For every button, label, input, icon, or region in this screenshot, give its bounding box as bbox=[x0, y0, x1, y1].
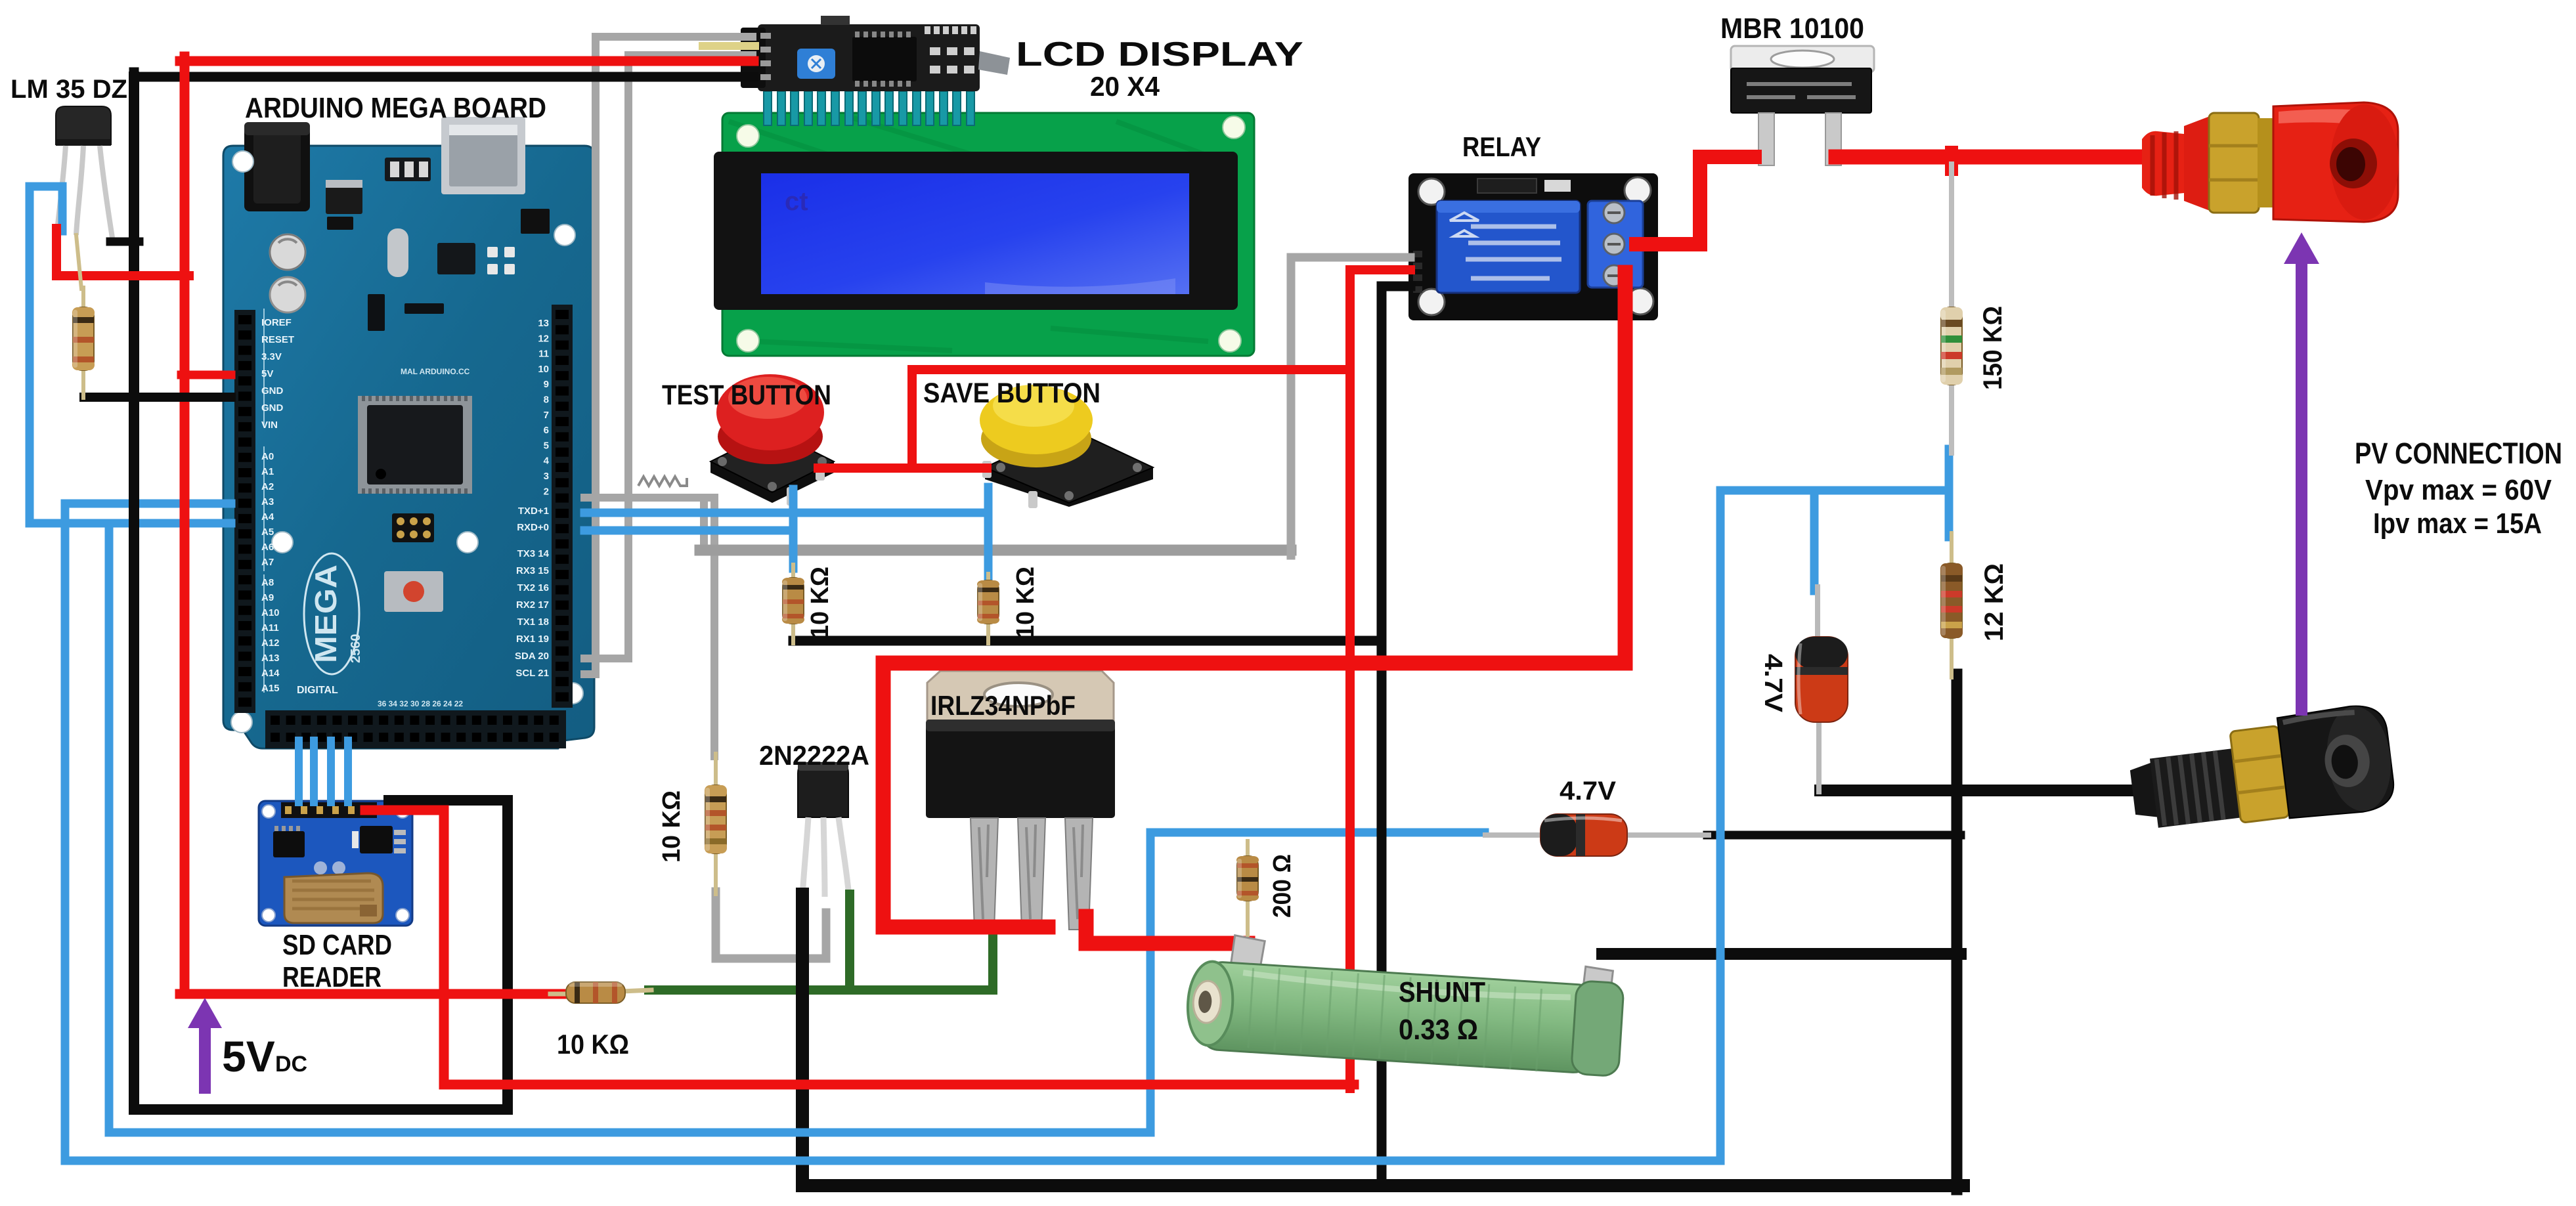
svg-text:150 KΩ: 150 KΩ bbox=[1978, 306, 2007, 390]
svg-text:TX3 14: TX3 14 bbox=[517, 548, 550, 559]
svg-text:11: 11 bbox=[538, 349, 549, 360]
wire: black from shunt to rail bbox=[1602, 948, 1961, 960]
wire: black pulldown bus under buttons bbox=[793, 636, 1382, 646]
svg-text:2N2222A: 2N2222A bbox=[759, 740, 869, 771]
svg-text:10: 10 bbox=[538, 364, 549, 375]
svg-text:10 KΩ: 10 KΩ bbox=[658, 790, 686, 863]
wire: red riser to relay VCC pin bbox=[1350, 270, 1410, 1088]
svg-text:4.7V: 4.7V bbox=[1759, 654, 1787, 713]
svg-text:TEST BUTTON: TEST BUTTON bbox=[662, 379, 831, 411]
svg-text:A11: A11 bbox=[261, 622, 279, 634]
svg-text:0.33 Ω: 0.33 Ω bbox=[1399, 1014, 1478, 1046]
artifact squiggle bbox=[638, 477, 687, 486]
svg-text:4: 4 bbox=[544, 456, 550, 467]
resistor lead 10K base bbox=[714, 754, 718, 789]
wire: blue MOSFET source sense riser bbox=[1150, 832, 1485, 1132]
wire: black left rail / SD ground loop bbox=[134, 77, 508, 1109]
svg-text:MAL ARDUINO.CC: MAL ARDUINO.CC bbox=[401, 367, 470, 376]
svg-text:TXD+1: TXD+1 bbox=[518, 506, 549, 517]
svg-text:5: 5 bbox=[544, 440, 549, 451]
svg-text:ARDUINO MEGA BOARD: ARDUINO MEGA BOARD bbox=[245, 92, 546, 124]
wire: red LM35 supply stub bbox=[56, 228, 189, 276]
wire: black from 4.7V diode to rail bbox=[1707, 831, 1961, 840]
wire: red relay COM to MBR anode bbox=[1636, 157, 1755, 244]
svg-text:9: 9 bbox=[544, 379, 549, 390]
wire: blue bottom bus 2 bbox=[65, 1157, 1720, 1165]
wire: grey 2N2222 base link bbox=[716, 892, 826, 958]
wire: grey branch down to relay IN bus bbox=[700, 502, 708, 550]
svg-text:A1: A1 bbox=[261, 466, 274, 477]
wire: red MBR cathode to PV positive jack bbox=[1836, 150, 2158, 165]
wire: blue LM35 output loop bbox=[30, 186, 231, 523]
purple arrow 5VDC supply bbox=[188, 998, 222, 1094]
resistor lead 10K gate bbox=[550, 992, 591, 997]
wire: grey SCL from Arduino pin 21 to LCD backpack bbox=[584, 37, 753, 674]
wire: red MOSFET source to shunt bbox=[1086, 916, 1248, 943]
svg-text:ct: ct bbox=[785, 187, 808, 216]
svg-text:READER: READER bbox=[282, 961, 382, 993]
svg-text:13: 13 bbox=[538, 318, 549, 329]
zener diode 4.7V (vertical) bbox=[1795, 584, 1848, 794]
wire: red top bus to LCD backpack VCC bbox=[180, 56, 754, 66]
wire: black LM35 ground stub bbox=[110, 238, 139, 246]
temperature sensor LM35 DZ bbox=[56, 106, 112, 238]
svg-text:12 KΩ: 12 KΩ bbox=[1980, 563, 2009, 641]
svg-text:SCL 21: SCL 21 bbox=[515, 668, 549, 679]
svg-text:MBR 10100: MBR 10100 bbox=[1720, 12, 1864, 45]
svg-text:SAVE BUTTON: SAVE BUTTON bbox=[923, 377, 1101, 409]
wire: red relay NO contact to MOSFET drain bbox=[883, 272, 1625, 927]
svg-text:LM 35 DZ: LM 35 DZ bbox=[11, 75, 127, 104]
svg-text:4.7V: 4.7V bbox=[1560, 777, 1616, 806]
wire: red button feed bbox=[818, 463, 987, 473]
svg-text:GND: GND bbox=[261, 385, 284, 397]
resistor R 10K (gate series, horizontal) bbox=[566, 982, 625, 1003]
PV positive banana jack (red) bbox=[2142, 102, 2399, 222]
wire: red 5V vertical rail bbox=[180, 56, 190, 994]
svg-text:RELAY: RELAY bbox=[1462, 131, 1541, 162]
wire: black GND stub overlay bbox=[84, 393, 231, 402]
wire: blue bottom bus 1 bbox=[109, 1129, 1150, 1137]
svg-text:A14: A14 bbox=[261, 668, 280, 679]
svg-text:SD CARD: SD CARD bbox=[282, 929, 392, 961]
wire: blue bus overlays bbox=[109, 1129, 1150, 1137]
svg-text:TX1 18: TX1 18 bbox=[517, 616, 549, 628]
wire: black 12K node rail bbox=[1952, 674, 1963, 1190]
svg-text:RESET: RESET bbox=[261, 334, 294, 345]
wire: green gate drive from 10K to MOSFET gate bbox=[649, 927, 993, 990]
svg-text:VIN: VIN bbox=[261, 420, 278, 431]
svg-text:Ipv max = 15A: Ipv max = 15A bbox=[2373, 507, 2542, 540]
resistor R 200 ohm bbox=[1237, 856, 1258, 901]
LCD I2C backpack module bbox=[741, 16, 1010, 91]
svg-text:A15: A15 bbox=[261, 683, 280, 694]
svg-text:A9: A9 bbox=[261, 592, 274, 603]
wire: black LM35 divider to Arduino GND bbox=[84, 393, 231, 402]
svg-text:Vpv max = 60V: Vpv max = 60V bbox=[2365, 474, 2552, 506]
resistor lead LM35 divider bbox=[76, 235, 81, 289]
svg-text:20 X4: 20 X4 bbox=[1090, 71, 1160, 102]
TEST push button bbox=[710, 374, 834, 506]
svg-text:A7: A7 bbox=[261, 557, 274, 568]
SAVE push button bbox=[980, 385, 1153, 508]
wire: red button riser and run to relay rail bbox=[912, 370, 1350, 468]
resistor lead 10K test bbox=[791, 565, 795, 582]
svg-text:GND: GND bbox=[261, 402, 284, 414]
wire: red rail to gate pulldown 10K bbox=[180, 989, 567, 999]
wire: blue 150K-12K junction segment bbox=[1945, 449, 1954, 537]
zener diode 4.7V (horizontal) bbox=[1483, 814, 1711, 856]
svg-text:DC: DC bbox=[275, 1052, 307, 1077]
svg-text:MEGA: MEGA bbox=[309, 565, 343, 663]
resistor R 10K (test button pulldown) bbox=[783, 578, 804, 624]
wire: blue branch to 4.7V zener bbox=[1810, 490, 1819, 591]
svg-text:RX3 15: RX3 15 bbox=[516, 565, 549, 576]
svg-text:IRLZ34NPbF: IRLZ34NPbF bbox=[930, 690, 1076, 721]
svg-text:10 KΩ: 10 KΩ bbox=[806, 567, 834, 639]
resistor R 10K (save button pulldown) bbox=[978, 580, 999, 624]
resistor lead 200 ohm bbox=[1246, 841, 1250, 860]
svg-text:PV CONNECTION: PV CONNECTION bbox=[2355, 437, 2562, 470]
wire: blue test button leg bbox=[789, 489, 798, 569]
svg-text:LCD DISPLAY: LCD DISPLAY bbox=[1016, 35, 1303, 74]
wire: green 2N2222 collector leg drop bbox=[845, 894, 854, 988]
svg-text:5V: 5V bbox=[261, 368, 273, 379]
wire: blue Arduino TX pin to buttons bbox=[584, 509, 988, 517]
wire: red stub into Arduino 5V pin bbox=[181, 371, 231, 379]
relay module bbox=[1408, 173, 1658, 320]
wire: blue left drop to bottom bus 1 bbox=[105, 523, 114, 1132]
wire: black relay GND drop bbox=[1382, 286, 1410, 1186]
svg-text:10 KΩ: 10 KΩ bbox=[557, 1029, 629, 1060]
wire: black top bus to LCD backpack GND bbox=[134, 72, 754, 77]
resistor lead 12K bbox=[1950, 533, 1954, 567]
svg-text:2: 2 bbox=[544, 486, 549, 497]
resistor R 12K bbox=[1941, 563, 1962, 638]
svg-text:12: 12 bbox=[538, 333, 549, 344]
Schottky diode MBR 10100 (TO-220) bbox=[1731, 46, 1874, 165]
svg-text:SHUNT: SHUNT bbox=[1399, 976, 1485, 1008]
LCD 20x4 display module bbox=[714, 91, 1254, 356]
svg-text:IOREF: IOREF bbox=[261, 317, 292, 328]
svg-text:A10: A10 bbox=[261, 607, 280, 618]
svg-text:SDA 20: SDA 20 bbox=[515, 651, 549, 662]
wire: khaki jumper into backpack bbox=[703, 42, 755, 50]
PV negative banana jack (black) bbox=[2126, 702, 2397, 840]
wire: red branch to 150K divider bbox=[1945, 152, 1958, 169]
svg-text:A13: A13 bbox=[261, 653, 280, 664]
svg-text:3: 3 bbox=[544, 471, 549, 482]
wire: grey signal Arduino to 2N2222 base resistor bbox=[584, 498, 714, 756]
svg-text:A6: A6 bbox=[261, 542, 274, 553]
svg-text:RX2 17: RX2 17 bbox=[516, 599, 549, 611]
wire: black main ground bus bbox=[802, 894, 1963, 1186]
svg-text:A3: A3 bbox=[261, 496, 274, 507]
svg-text:3.3V: 3.3V bbox=[261, 351, 282, 362]
wire: blue riser to 150K/12K node bbox=[1720, 490, 1949, 1161]
resistor R 150K bbox=[1941, 307, 1962, 385]
svg-text:DIGITAL: DIGITAL bbox=[297, 685, 338, 696]
wire: blue SD card data lines bbox=[295, 741, 303, 802]
wire: blue Arduino A-pin to left drop bbox=[65, 504, 231, 1161]
SD card reader module bbox=[259, 801, 412, 926]
svg-text:200 Ω: 200 Ω bbox=[1269, 854, 1296, 918]
svg-text:5V: 5V bbox=[222, 1032, 275, 1081]
svg-text:A5: A5 bbox=[261, 527, 274, 538]
resistor R 10K (2N2222 base) bbox=[705, 785, 726, 853]
svg-text:RX1 19: RX1 19 bbox=[516, 634, 549, 645]
svg-text:36 34 32 30 28 26 24 22: 36 34 32 30 28 26 24 22 bbox=[378, 699, 463, 708]
resistor lead 150K bbox=[1949, 164, 1954, 311]
svg-text:A12: A12 bbox=[261, 637, 280, 649]
NPN transistor 2N2222A bbox=[798, 763, 849, 897]
svg-text:A2: A2 bbox=[261, 481, 274, 492]
svg-text:7: 7 bbox=[544, 410, 549, 421]
wire: blue Arduino RX pin to test button bbox=[584, 527, 793, 535]
svg-text:TX2 16: TX2 16 bbox=[517, 582, 549, 593]
svg-text:10 KΩ: 10 KΩ bbox=[1012, 567, 1039, 639]
wire: black zener to PV negative jack bbox=[1820, 785, 2146, 796]
resistor lead 10K save bbox=[986, 574, 990, 584]
resistor LM35 divider (vertical) bbox=[73, 307, 94, 370]
wire: red bottom 5V bus bbox=[444, 1080, 1354, 1090]
shunt resistor 0.33 ohm bbox=[1185, 933, 1626, 1077]
wire: grey SDA from Arduino pin 20 to LCD backpack bbox=[584, 55, 753, 658]
svg-text:RXD+0: RXD+0 bbox=[517, 522, 549, 533]
Arduino Mega board bbox=[223, 117, 594, 748]
wire: white relay spare pin stub bbox=[1391, 283, 1410, 290]
svg-text:A4: A4 bbox=[261, 511, 274, 523]
svg-text:6: 6 bbox=[544, 425, 549, 436]
MOSFET IRLZ34NPbF (TO-220) bbox=[926, 671, 1115, 930]
wire: red SD card VCC bbox=[365, 810, 444, 1085]
purple arrow PV connection bbox=[2284, 232, 2319, 716]
svg-text:8: 8 bbox=[544, 395, 549, 406]
wire: grey riser to relay IN pin bbox=[1291, 257, 1410, 555]
wire: blue save button leg bbox=[984, 487, 993, 576]
svg-text:A0: A0 bbox=[261, 451, 274, 462]
wire: grey relay IN bus bbox=[700, 545, 1291, 556]
svg-text:A8: A8 bbox=[261, 577, 274, 588]
